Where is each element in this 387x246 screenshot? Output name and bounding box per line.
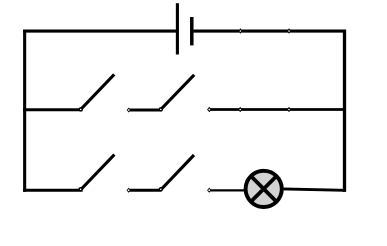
end diamond lamp feed xyxy=(207,188,211,193)
wire lamp to right xyxy=(284,189,345,190)
end diamond S4 feed xyxy=(127,188,131,193)
end diamond middle-right xyxy=(207,107,211,112)
wire middle-left xyxy=(23,108,83,111)
lamp L1 cross stroke 2 xyxy=(251,176,276,201)
junction diamond top b xyxy=(287,28,291,34)
junction diamond middle b xyxy=(287,107,291,112)
junction diamond top a xyxy=(238,28,242,34)
switch S3 pivot xyxy=(79,188,82,191)
switch S4 blade xyxy=(161,155,194,189)
switch S1 blade xyxy=(81,74,114,108)
switch S2 pivot xyxy=(159,108,162,111)
wire right vertical xyxy=(343,30,346,192)
switch S3 blade xyxy=(81,155,114,190)
wire lamp feed left xyxy=(209,189,245,191)
junction diamond middle a xyxy=(238,107,242,112)
lamp L1 body xyxy=(246,171,282,207)
wire top-left xyxy=(23,29,177,32)
wire top-right xyxy=(194,29,346,32)
lamp L1 cross stroke 1 xyxy=(251,176,276,201)
cell B1 long plate (+) xyxy=(176,3,179,54)
cell B1 short plate (-) xyxy=(190,17,194,45)
wire switch S2 feed xyxy=(129,109,162,112)
wire middle-right xyxy=(209,108,346,111)
switch S2 blade xyxy=(161,75,194,109)
switch S1 pivot xyxy=(79,108,82,111)
wire left vertical xyxy=(23,30,26,192)
switch S4 pivot xyxy=(159,188,162,191)
wire switch S4 feed xyxy=(129,189,162,192)
wire bottom-left xyxy=(23,189,83,192)
end diamond S2 feed xyxy=(127,108,131,113)
